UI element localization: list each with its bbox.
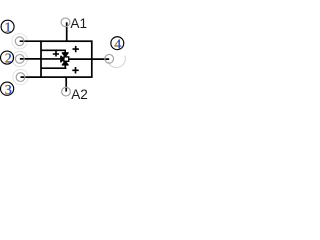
terminal dot A1 [61, 18, 70, 27]
svg-text:A1: A1 [70, 16, 87, 31]
wire A2 from box bottom [65, 77, 67, 92]
summing square [64, 57, 69, 61]
inner input line 3 with riser [41, 62, 66, 68]
svg-text:3: 3 [5, 83, 12, 98]
wire terminal1 to box [20, 40, 41, 42]
terminal dot 2 [15, 55, 24, 64]
wire A1 to box top [66, 22, 68, 41]
terminal dot 4 [105, 54, 114, 63]
inner input line 1 with corner [41, 50, 65, 53]
terminal hotspot halo 4 [108, 56, 125, 68]
svg-text:A2: A2 [71, 87, 88, 102]
wire output to terminal 4 [69, 58, 110, 60]
terminal hotspot halo 1 [12, 34, 27, 49]
svg-text:1: 1 [4, 21, 11, 36]
terminal number 2 [1, 51, 14, 66]
plus sign input 3 [72, 67, 78, 74]
plus sign input A (top) [73, 46, 79, 52]
svg-text:4: 4 [114, 37, 121, 52]
arrow up into square [62, 61, 68, 65]
arrow down into square [62, 53, 68, 57]
terminal number 4 [111, 37, 124, 53]
terminal number 1 [1, 20, 14, 35]
inner input line 2 (midline) [41, 58, 61, 60]
plus sign input 1 [53, 51, 59, 57]
terminal dot 1 [15, 37, 24, 46]
wire terminal2 to box [20, 58, 41, 60]
wire terminal3 to box [21, 76, 42, 78]
svg-text:2: 2 [5, 51, 12, 66]
terminal hotspot halo 2 [12, 51, 27, 66]
terminal dot A2 [62, 87, 71, 96]
box U1 outline [41, 41, 92, 77]
terminal number 3 [1, 82, 14, 98]
terminal dot 3 [16, 73, 25, 82]
terminal hotspot halo 3 [13, 69, 28, 84]
arrow right into square [61, 56, 64, 62]
